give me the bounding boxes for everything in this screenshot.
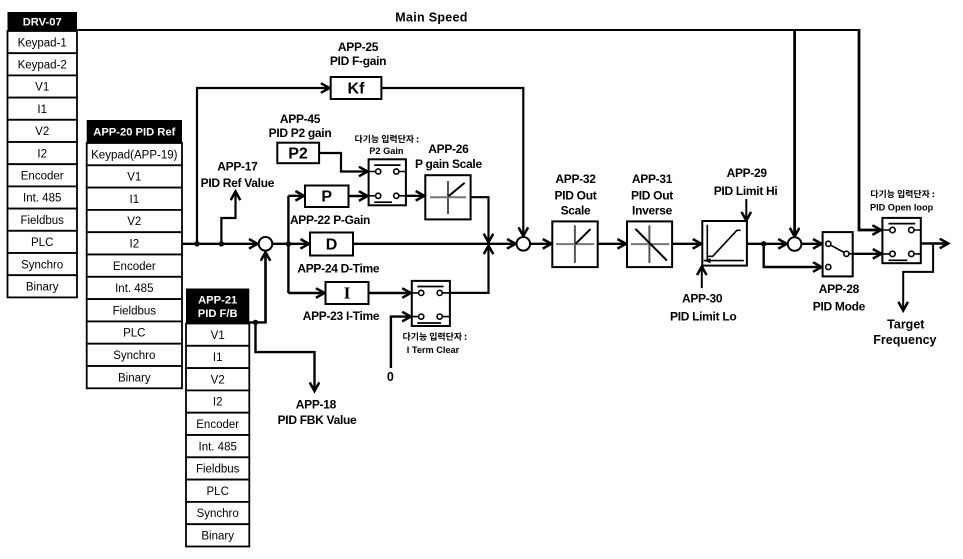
label multi-function input PID Open loop (korean) [870, 190, 934, 213]
summing node C2 [517, 237, 531, 251]
label Target Frequency [873, 318, 936, 347]
label APP-18 PID FBK Value [278, 398, 357, 428]
svg-text:Binary: Binary [118, 372, 151, 384]
label multi-function input I Term Clear (korean) [403, 332, 466, 355]
svg-text:APP-26: APP-26 [428, 142, 469, 156]
label APP-32 PID Out Scale [555, 172, 597, 218]
block P2 [277, 143, 319, 164]
wire APP-18 FBK branch [256, 322, 315, 391]
contact box I Term Clear (multi-function input) [412, 281, 450, 326]
svg-text:Encoder: Encoder [113, 261, 156, 273]
wire APP-32 to APP-31 [598, 243, 626, 245]
svg-text:Fieldbus: Fieldbus [196, 464, 240, 476]
svg-text:Int. 485: Int. 485 [115, 283, 153, 295]
svg-text:I2: I2 [213, 397, 223, 409]
label APP-28 PID Mode [813, 282, 866, 314]
svg-text:APP-24 D-Time: APP-24 D-Time [297, 262, 380, 276]
svg-text:Encoder: Encoder [21, 171, 64, 183]
svg-text:I2: I2 [130, 239, 140, 251]
svg-text:PID Ref Value: PID Ref Value [201, 176, 275, 190]
svg-text:APP-18: APP-18 [296, 398, 337, 412]
wire branch to P [288, 195, 304, 197]
svg-text:PID F/B: PID F/B [198, 308, 238, 320]
wire bypass to switch lower [764, 244, 822, 267]
wire I out to contact [369, 292, 411, 294]
svg-text:I2: I2 [37, 148, 47, 160]
svg-text:Target: Target [887, 318, 925, 332]
wire D out to C2 [353, 243, 516, 245]
block APP-31 PID Out Inverse [627, 221, 672, 267]
svg-text:PLC: PLC [123, 328, 145, 340]
svg-text:APP-25: APP-25 [338, 40, 379, 54]
wire P out to contact [349, 195, 368, 197]
wire C2 out [530, 243, 551, 245]
svg-text:V1: V1 [127, 172, 141, 184]
svg-text:APP-29: APP-29 [727, 166, 768, 180]
svg-text:Keypad(APP-19): Keypad(APP-19) [91, 149, 177, 161]
svg-text:Keypad-1: Keypad-1 [18, 37, 67, 49]
wire I term out up to spine [450, 246, 489, 293]
svg-text:Fieldbus: Fieldbus [20, 215, 64, 227]
summing node C3 [788, 237, 802, 251]
svg-text:I1: I1 [213, 352, 223, 364]
wire contact out to APP-26 [406, 195, 424, 197]
svg-text:PID F-gain: PID F-gain [330, 54, 386, 68]
block P [305, 186, 349, 208]
node junction feedback [253, 320, 258, 325]
svg-text:APP-17: APP-17 [217, 159, 258, 173]
svg-text:Binary: Binary [201, 531, 234, 543]
svg-text:PID Mode: PID Mode [813, 299, 866, 313]
wire APP-26 out down to spine [471, 197, 489, 242]
wire APP-20 out to C1 [182, 243, 258, 245]
wire feedback from APP-21 [249, 321, 265, 323]
wire Kf feed [197, 88, 330, 244]
table APP-20 PID Ref [87, 120, 182, 388]
svg-text:Int. 485: Int. 485 [199, 441, 237, 453]
svg-text:Encoder: Encoder [196, 419, 239, 431]
svg-text:APP-45: APP-45 [280, 112, 321, 126]
switch block APP-28 [823, 232, 853, 276]
block D [310, 233, 353, 256]
wire limiter out to C3 [747, 243, 787, 245]
svg-text:I1: I1 [37, 104, 47, 116]
contact box PID Open loop (multi-function input) [882, 218, 920, 263]
svg-text:APP-23 I-Time: APP-23 I-Time [303, 309, 380, 323]
svg-text:Binary: Binary [26, 282, 59, 294]
wire feedback up into C1 [264, 252, 267, 323]
block Kf [331, 77, 382, 99]
block APP-26 P gain scale [425, 175, 470, 219]
label APP-25 PID F-gain [330, 40, 386, 68]
wire APP-31 to limiter [672, 243, 701, 245]
svg-text:P2: P2 [288, 145, 308, 162]
svg-text:PID Limit Lo: PID Limit Lo [670, 310, 736, 324]
svg-text:PID Out: PID Out [631, 188, 673, 202]
node junction bypass [761, 241, 766, 246]
node junction Kf-feed [194, 241, 199, 246]
wire zero input [391, 317, 411, 368]
svg-text:APP-22 P-Gain: APP-22 P-Gain [290, 213, 370, 227]
node junction PDI branch [286, 241, 291, 246]
svg-text:DRV-07: DRV-07 [23, 17, 62, 29]
summing node C1 [259, 237, 273, 251]
svg-text:P: P [321, 189, 332, 206]
svg-text:Kf: Kf [348, 81, 366, 98]
svg-text:Synchro: Synchro [113, 350, 155, 362]
svg-text:APP-31: APP-31 [632, 172, 673, 186]
wire C3 out to switch [801, 243, 821, 245]
wire APP-17 ref value arrow [221, 192, 235, 244]
wire PDI branch vertical [287, 196, 289, 293]
svg-text:PID P2 gain: PID P2 gain [269, 126, 332, 140]
svg-text:PLC: PLC [207, 486, 229, 498]
svg-text:APP-32: APP-32 [555, 172, 596, 186]
node junction ref-value [219, 241, 224, 246]
wire main speed top [76, 29, 860, 31]
svg-text:Frequency: Frequency [873, 333, 936, 347]
wire C1 out to D [272, 243, 309, 245]
svg-text:Int. 485: Int. 485 [23, 193, 61, 205]
wire P2 out to contact [319, 153, 367, 172]
wire main speed drop to summing C3 [793, 29, 796, 237]
svg-text:APP-30: APP-30 [682, 292, 723, 306]
block APP-32 PID Out Scale [552, 221, 597, 267]
wire switch out to open loop contact [853, 253, 882, 255]
label APP-30 PID Limit Lo [670, 292, 736, 324]
block PID limiter (saturation) [702, 221, 747, 266]
svg-text:D: D [326, 236, 338, 253]
table APP-21 PID F/B [186, 289, 249, 547]
table DRV-07 [8, 12, 78, 297]
contact box P2 Gain (multi-function input) [369, 159, 406, 205]
wire branch to I [288, 292, 324, 294]
label APP-17 PID Ref Value [201, 159, 275, 190]
svg-text:Keypad-2: Keypad-2 [18, 60, 67, 72]
label APP-31 PID Out Inverse [631, 172, 673, 218]
svg-text:PID Limit Hi: PID Limit Hi [714, 184, 778, 198]
label multi-function input P2 Gain (korean) [355, 135, 418, 156]
block I [326, 282, 369, 304]
svg-text:APP-20 PID Ref: APP-20 PID Ref [93, 127, 175, 139]
svg-text:P2 Gain: P2 Gain [369, 146, 404, 156]
label APP-26 P gain Scale [415, 142, 483, 171]
wire main speed drop to open loop [859, 29, 881, 230]
svg-text:V1: V1 [211, 330, 225, 342]
svg-text:APP-21: APP-21 [198, 294, 237, 306]
svg-text:I: I [344, 284, 351, 303]
svg-text:V2: V2 [35, 126, 49, 138]
wire APP-30 arrow up [701, 267, 703, 289]
svg-text:P gain Scale: P gain Scale [415, 157, 483, 171]
svg-text:Inverse: Inverse [632, 204, 673, 218]
svg-text:PLC: PLC [31, 237, 53, 249]
svg-text:Main Speed: Main Speed [395, 11, 467, 25]
wire Kf out to C2 [381, 88, 523, 236]
svg-text:Fieldbus: Fieldbus [113, 305, 157, 317]
label APP-45 PID P2 gain [269, 112, 332, 140]
wire open loop out [921, 242, 949, 244]
svg-text:APP-28: APP-28 [819, 282, 860, 296]
svg-text:Synchro: Synchro [21, 259, 63, 271]
svg-text:V2: V2 [211, 374, 225, 386]
svg-text:PID Out: PID Out [555, 188, 597, 202]
svg-text:V1: V1 [35, 82, 49, 94]
svg-text:V2: V2 [127, 216, 141, 228]
svg-text:PID Open loop: PID Open loop [870, 202, 934, 212]
wire target frequency branch [903, 244, 933, 311]
label APP-29 PID Limit Hi [714, 166, 778, 198]
svg-text:PID FBK Value: PID FBK Value [278, 413, 357, 427]
wire APP-29 arrow down [745, 199, 747, 221]
svg-text:Scale: Scale [561, 204, 591, 218]
svg-text:0: 0 [387, 370, 394, 384]
svg-text:I1: I1 [130, 194, 140, 206]
svg-text:I Term Clear: I Term Clear [407, 345, 460, 355]
svg-text:Synchro: Synchro [197, 508, 239, 520]
